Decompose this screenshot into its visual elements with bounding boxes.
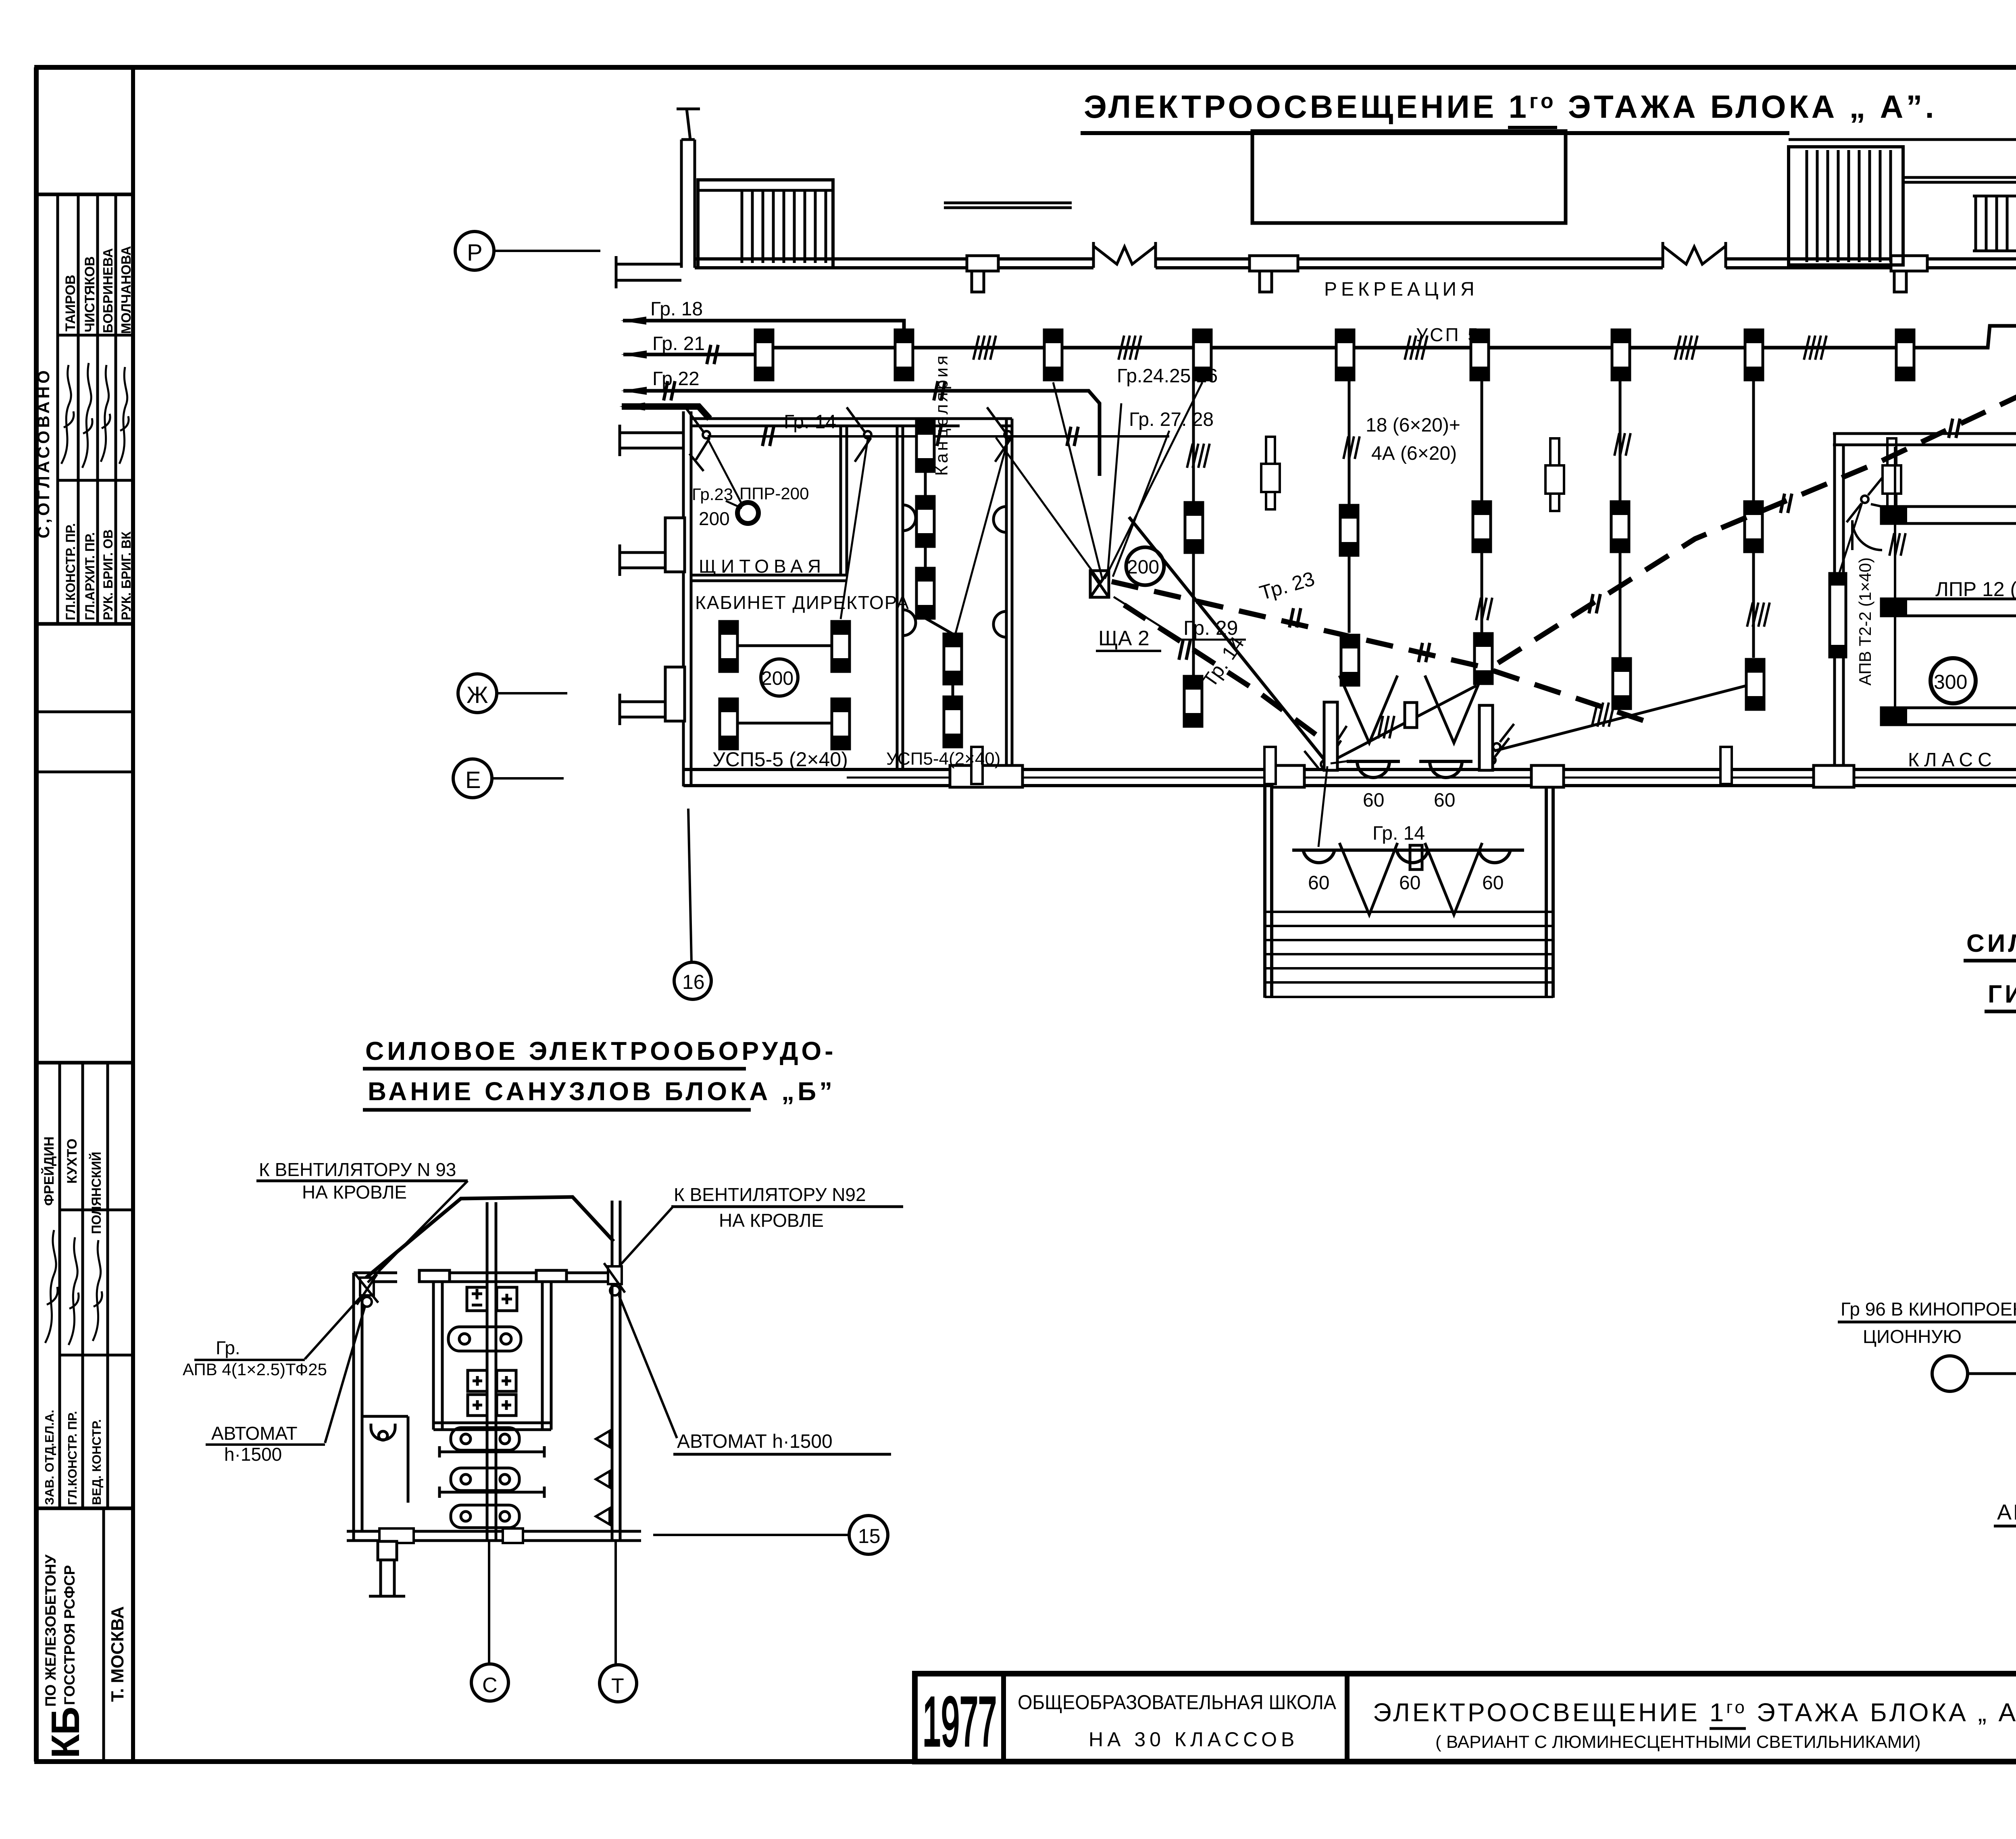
corridor north wall center: [1156, 257, 1663, 261]
office luminaire 4: [832, 699, 850, 749]
bath entry stub: [369, 1541, 405, 1596]
wall pier a: [950, 765, 1023, 787]
switch cluster right post: [1488, 724, 1514, 764]
main stairhall rectangle: [1252, 131, 1566, 223]
switch cluster left post: [1304, 726, 1347, 768]
svg-text:ЗАВ. ОТД.ЕЛ.А.: ЗАВ. ОТД.ЕЛ.А.: [42, 1410, 56, 1505]
svg-text:Гр 22: Гр 22: [652, 368, 700, 390]
leader 15: [653, 1534, 848, 1536]
wall luminaire АПО: [1830, 573, 1846, 657]
hall luminaire c4 up: [1611, 502, 1629, 552]
svg-text:Гр. 14: Гр. 14: [784, 411, 836, 433]
luminaire row1-2: [895, 330, 913, 380]
wall stub 4: [620, 694, 669, 725]
kanc luminaire 2: [916, 496, 934, 546]
leader Автомат right: [619, 1295, 677, 1438]
dashed branch lower: [1124, 605, 1325, 741]
dashed trunk Тр.23: [1112, 582, 1645, 721]
wire vestibule right: [1494, 686, 1747, 751]
svg-text:РУК. БРИГ. ВК: РУК. БРИГ. ВК: [119, 531, 133, 620]
svg-text:С: С: [482, 1674, 498, 1697]
wire Гр.21: [623, 353, 755, 357]
svg-text:ЩА 2: ЩА 2: [1098, 627, 1150, 650]
svg-text:НА КРОВЛЕ: НА КРОВЛЕ: [719, 1210, 824, 1231]
lamp rail lower: [1292, 849, 1524, 852]
svg-text:ЛПР 12 (2×40): ЛПР 12 (2×40): [1935, 578, 2016, 600]
sheet border bottom: [34, 1759, 2016, 1764]
underline vent92: [671, 1205, 903, 1208]
title underline: [1081, 131, 1789, 135]
stall post left: [419, 1270, 450, 1430]
hatch groups on bus: [973, 336, 996, 360]
left entry grid stub: [687, 109, 690, 140]
hall luminaire c5 low: [1746, 659, 1764, 709]
signature 3: [101, 365, 110, 462]
svg-text:4А (6×20): 4А (6×20): [1371, 443, 1457, 464]
tb divider 1: [1001, 1674, 1006, 1762]
signature 7: [93, 1240, 102, 1341]
stairwell right box: [1789, 147, 1903, 265]
column below wall 3: [1894, 271, 1906, 292]
kanc luminaire 1: [916, 421, 934, 471]
sheet border left: [34, 67, 39, 1762]
grid circle Ж: [458, 674, 567, 713]
svg-text:60: 60: [1308, 872, 1329, 894]
top edge line right: [1789, 138, 2016, 141]
kanc luminaire 3: [916, 568, 934, 618]
svg-text:Гр. 14: Гр. 14: [1372, 823, 1425, 844]
column stub 3: [1720, 747, 1732, 784]
sidebar right edge: [131, 67, 135, 1762]
svg-text:ГЛ.КОНСТР. ПР.: ГЛ.КОНСТР. ПР.: [63, 523, 78, 620]
bath bottom wall: [347, 1530, 641, 1533]
circle С: [471, 1664, 508, 1701]
svg-text:60: 60: [1482, 872, 1504, 894]
title block frame: [915, 1674, 2016, 1762]
luminaire row1-9: [1896, 330, 1914, 380]
right railing bars: [1976, 196, 2016, 250]
room block left wall: [682, 411, 685, 786]
underline Автомат right: [673, 1453, 891, 1456]
vestibule left wall: [1263, 786, 1266, 998]
tb divider 2: [1345, 1674, 1350, 1762]
door M left entrance: [1093, 242, 1156, 268]
svg-text:ГЛ.АРХИТ. ПР.: ГЛ.АРХИТ. ПР.: [83, 532, 97, 620]
urinal 3: [596, 1508, 610, 1524]
leader ГрАПВ: [305, 1295, 362, 1359]
svg-text:РЕКРЕАЦИЯ: РЕКРЕАЦИЯ: [1324, 279, 1479, 300]
svg-text:Ж: Ж: [467, 682, 488, 708]
hall luminaire c4 low: [1613, 659, 1631, 709]
underline Автомат гым: [1994, 1525, 2016, 1528]
wire Гр.14 run: [708, 435, 1169, 438]
grid circle Р: [455, 231, 600, 270]
room block top wall: [691, 417, 1012, 420]
class bar luminaire 3: [1881, 708, 2016, 725]
bath header underline2: [363, 1108, 751, 1112]
wall pier white: [967, 256, 998, 271]
tbar 1: [439, 1446, 544, 1457]
svg-text:200: 200: [761, 668, 793, 689]
bath fan left: [355, 1274, 378, 1307]
svg-text:КЛАСС: КЛАСС: [1908, 749, 1997, 771]
corridor north wall left: [695, 257, 1093, 261]
svg-text:Тр. 23: Тр. 23: [1257, 567, 1317, 604]
svg-text:ОБЩЕОБРАЗОВАТЕЛЬНАЯ ШКОЛА: ОБЩЕОБРАЗОВАТЕЛЬНАЯ ШКОЛА: [1018, 1691, 1337, 1714]
tbar 2: [439, 1487, 544, 1498]
kino circle: [1932, 1356, 1968, 1391]
class wire vertical: [1894, 447, 1896, 709]
hall luminaire c5 up: [1745, 502, 1762, 552]
svg-text:АВТОМАТ h·1500: АВТОМАТ h·1500: [677, 1431, 833, 1452]
south wall line 2: [683, 784, 2016, 787]
wall stub 2: [620, 425, 683, 456]
schitovaya right wall: [839, 426, 842, 575]
door post center inner: [1410, 845, 1422, 869]
door M center: [1663, 242, 1726, 268]
office luminaire 3: [720, 699, 737, 749]
wall pier c: [1531, 765, 1564, 787]
luminaire row1-7: [1612, 330, 1630, 380]
chain col2: [1348, 380, 1351, 633]
svg-text:К ВЕНТИЛЯТОРУ N92: К ВЕНТИЛЯТОРУ N92: [674, 1184, 866, 1205]
wall pier white 2: [1250, 256, 1298, 271]
svg-text:ГОССТРОЯ РСФСР: ГОССТРОЯ РСФСР: [61, 1565, 78, 1705]
svg-text:h·1500: h·1500: [224, 1444, 282, 1465]
luminaire row1-4: [1193, 330, 1211, 380]
line to С: [488, 1541, 490, 1664]
tick Гр.21: [707, 345, 718, 364]
wire Гр.22: [623, 391, 1100, 476]
toilet row3: [451, 1505, 519, 1528]
ref line 16: [688, 809, 691, 962]
svg-text:НА КРОВЛЕ: НА КРОВЛЕ: [302, 1182, 407, 1203]
chain col4: [1619, 380, 1622, 658]
svg-text:СИЛОВОЕ ЭЛЕКТРООБОРУДО-: СИЛОВОЕ ЭЛЕКТРООБОРУДО-: [365, 1036, 837, 1065]
svg-text:200: 200: [1127, 557, 1159, 578]
wire to ppr outlet: [708, 440, 742, 504]
svg-text:Гр. 21: Гр. 21: [652, 333, 705, 354]
signature 1: [61, 365, 74, 464]
underline vent93: [256, 1180, 468, 1182]
wall stub 1: [616, 256, 681, 288]
class bar luminaire 2: [1881, 599, 2016, 616]
circle Т: [600, 1665, 637, 1702]
svg-text:300: 300: [1934, 671, 1967, 693]
wire vestibule left: [1327, 686, 1477, 763]
luminaire row1-8: [1745, 330, 1763, 380]
underline Автомат left: [206, 1443, 325, 1446]
office row link 2: [737, 722, 832, 725]
wire to kino circle: [1968, 1372, 2016, 1375]
underline кино: [1838, 1321, 2016, 1324]
svg-text:ВАНИЕ САНУЗЛОВ БЛОКА „Б”: ВАНИЕ САНУЗЛОВ БЛОКА „Б”: [368, 1077, 835, 1106]
feeder heavy: [622, 407, 710, 419]
column stub 1: [971, 747, 983, 784]
svg-text:15: 15: [858, 1525, 881, 1547]
wall pier b: [1272, 765, 1304, 787]
bath header underline1: [363, 1067, 746, 1071]
gym underline2: [1985, 1010, 2016, 1013]
lamp 60 u1: [1347, 761, 1400, 778]
svg-text:АПВ Т2-2 (1×40): АПВ Т2-2 (1×40): [1856, 557, 1874, 686]
luminaire row1-5: [1336, 330, 1354, 380]
door M inner: [1339, 843, 1482, 915]
svg-text:ППР-200: ППР-200: [739, 484, 809, 503]
staff table grid: [58, 1063, 61, 1508]
right landing rail: [1903, 176, 2016, 179]
svg-text:БОБРИНЕВА: БОБРИНЕВА: [100, 248, 115, 333]
svg-text:ГЛ.КОНСТР. ПР.: ГЛ.КОНСТР. ПР.: [65, 1411, 79, 1505]
svg-text:Е: Е: [465, 767, 481, 793]
urinal 2: [596, 1471, 610, 1487]
svg-text:Гр 96 В КИНОПРОЕК-: Гр 96 В КИНОПРОЕК-: [1841, 1299, 2016, 1320]
sink block mid: [468, 1370, 516, 1416]
svg-text:Т: Т: [611, 1674, 624, 1698]
wire to lamps: [1318, 761, 1352, 847]
svg-text:ЧИСТЯКОВ: ЧИСТЯКОВ: [82, 256, 98, 332]
leader Гр.24 labels: [1108, 403, 1169, 577]
sink pair top: [467, 1287, 517, 1311]
office row link 1: [737, 644, 832, 647]
svg-text:УСП5-5 (2×40): УСП5-5 (2×40): [712, 748, 848, 771]
column stub 2: [1264, 747, 1276, 784]
svg-text:К ВЕНТИЛЯТОРУ N 93: К ВЕНТИЛЯТОРУ N 93: [259, 1159, 456, 1180]
signature 6: [69, 1237, 79, 1345]
svg-text:КУХТО: КУХТО: [65, 1138, 80, 1184]
svg-text:( ВАРИАНТ С ЛЮМИНЕСЦЕНТНЫМИ С: ( ВАРИАНТ С ЛЮМИНЕСЦЕНТНЫМИ СВЕТИЛЬНИКАМ…: [1435, 1732, 1921, 1752]
chain col3: [1481, 380, 1483, 634]
switch 1: [685, 407, 710, 471]
svg-text:НА 30 КЛАССОВ: НА 30 КЛАССОВ: [1089, 1728, 1298, 1751]
wire to kanc fixture: [956, 440, 1008, 633]
svg-text:КБ: КБ: [43, 1708, 87, 1758]
stall shelf: [433, 1423, 551, 1430]
leader Автомат left: [325, 1307, 365, 1443]
wall stub 3: [620, 544, 669, 576]
lamp 60 l1: [1303, 850, 1335, 863]
underline ГрАПВ: [194, 1359, 305, 1361]
leader Гр.29: [1114, 597, 1246, 640]
luminaire row1-6: [1471, 330, 1489, 380]
door post center top: [1405, 703, 1417, 728]
underline ЩА2: [1096, 650, 1161, 652]
svg-text:Гр. 18: Гр. 18: [650, 298, 703, 320]
svg-text:ЩИТОВАЯ: ЩИТОВАЯ: [699, 556, 826, 577]
lamp 60 l2: [1397, 850, 1428, 863]
svg-text:Гр.: Гр.: [216, 1337, 240, 1358]
toilet row2: [451, 1468, 519, 1491]
wire switch to APO: [1839, 503, 1862, 573]
svg-text:АВТОМАТ: АВТОМАТ: [211, 1423, 298, 1444]
stairs left treads: [742, 190, 826, 263]
corridor north wall right: [1726, 257, 2016, 261]
svg-text:ЭЛЕКТРООСВЕЩЕНИЕ 1го ЭТАЖА БЛ: ЭЛЕКТРООСВЕЩЕНИЕ 1го ЭТАЖА БЛОКА „ А”: [1373, 1697, 2016, 1727]
chain col5: [1752, 380, 1755, 658]
column B: [1545, 438, 1564, 511]
solid line Тр.14: [1129, 517, 1327, 763]
bath central wall: [486, 1202, 489, 1541]
south wall mid line: [847, 777, 2016, 779]
kanc chain: [925, 471, 953, 697]
bath pier 2: [503, 1528, 523, 1543]
wire to office fixture: [841, 440, 868, 619]
column below wall: [972, 271, 984, 292]
svg-text:УСП5-4(2×40): УСП5-4(2×40): [886, 749, 1000, 769]
hall luminaire c2 low: [1341, 635, 1359, 685]
pilaster 4: [665, 667, 685, 721]
chain col1: [1192, 380, 1195, 676]
svg-text:ВЕД. КОНСТР.: ВЕД. КОНСТР.: [90, 1419, 104, 1505]
hatch marks on chains: [1343, 436, 1360, 459]
svg-text:С,ОГЛАСОВАНО: С,ОГЛАСОВАНО: [34, 367, 53, 538]
hall luminaire c1 up: [1185, 502, 1203, 553]
svg-text:1977: 1977: [923, 1683, 997, 1760]
hall luminaire c2 up: [1340, 505, 1358, 555]
ticks on dashed: [1289, 608, 1301, 628]
svg-text:18 (6×20)+: 18 (6×20)+: [1366, 415, 1460, 436]
wall pier d: [1814, 765, 1854, 787]
signature 2: [82, 363, 92, 468]
svg-text:ГИМНАСТИЧЕСКОГО ЗАЛА: ГИМНАСТИЧЕСКОГО ЗАЛА: [1988, 980, 2016, 1008]
circle 15: [849, 1516, 888, 1554]
toilet top pair: [448, 1327, 521, 1351]
line to Т: [614, 1541, 617, 1665]
column C: [1883, 438, 1901, 511]
class bar luminaire 1: [1881, 507, 2016, 523]
gym underline1: [1964, 959, 2016, 963]
vestibule right wall: [1545, 786, 1548, 998]
bath left wall: [352, 1273, 355, 1541]
stairs right treads: [1807, 150, 1891, 262]
leader ppr: [726, 501, 742, 508]
switch 3: [987, 407, 1012, 462]
class door arc: [1852, 520, 1882, 550]
canopy line: [944, 203, 1072, 208]
lamp 60 u2: [1419, 761, 1472, 778]
column below wall 2: [1260, 271, 1272, 292]
stairwell left box: [698, 180, 833, 268]
door jamb post right: [1479, 705, 1493, 770]
urinal 1: [596, 1431, 610, 1447]
bath fan right: [604, 1263, 625, 1295]
bath top wall: [354, 1273, 620, 1282]
door M outer: [1339, 676, 1482, 743]
left entry wall: [680, 140, 683, 268]
svg-text:60: 60: [1399, 872, 1420, 894]
hall luminaire c1 low: [1184, 676, 1202, 726]
wires from panel: [996, 382, 1202, 583]
hall luminaire c3 low: [1475, 634, 1492, 684]
toilet row1: [451, 1428, 519, 1450]
svg-text:ЭЛЕКТРООСВЕЩЕНИЕ 1го ЭТАЖА: ЭЛЕКТРООСВЕЩЕНИЕ 1го ЭТАЖА БЛОКА „ А”.: [1084, 89, 1937, 125]
office 200 circle: [761, 659, 798, 696]
approval table grid: [56, 194, 59, 624]
bath right wall: [611, 1201, 614, 1541]
kanc 200 circle: [1126, 547, 1164, 585]
svg-text:УСП 5: УСП 5: [1416, 324, 1480, 345]
svg-text:60: 60: [1363, 790, 1384, 811]
grid circle Е: [453, 759, 564, 798]
tick Гр.22: [664, 381, 675, 400]
leader N93: [368, 1181, 468, 1282]
ref circle 16: [674, 962, 711, 999]
door arc kanc right: [993, 507, 1006, 637]
svg-text:ПОЛЯНСКИЙ: ПОЛЯНСКИЙ: [89, 1152, 104, 1234]
sidebar dividers: [36, 193, 133, 196]
sheet border top: [34, 65, 2016, 70]
schitovaya bottom wall: [691, 574, 847, 577]
svg-text:РУК. БРИГ. ОВ: РУК. БРИГ. ОВ: [101, 530, 115, 620]
leader N92: [621, 1206, 674, 1264]
steps: [1265, 912, 1553, 997]
kanc right wall: [1005, 419, 1008, 770]
lamp 60 l3: [1479, 850, 1510, 863]
svg-text:АПВ 4(1×2.5)ТФ25: АПВ 4(1×2.5)ТФ25: [183, 1360, 327, 1379]
column A: [1261, 437, 1280, 509]
class top wall: [1833, 432, 2016, 435]
partition office-kanc: [896, 426, 899, 770]
signature 5: [45, 1230, 58, 1343]
door jamb post left: [1324, 702, 1337, 770]
door arc kanc left: [903, 505, 916, 636]
pilaster 3: [665, 518, 685, 572]
svg-text:Р: Р: [467, 240, 483, 266]
class left wall: [1833, 434, 1836, 769]
south wall line 1: [683, 768, 2016, 771]
svg-text:КАБИНЕТ ДИРЕКТОРА: КАБИНЕТ ДИРЕКТОРА: [695, 592, 910, 613]
svg-text:ТАИРОВ: ТАИРОВ: [63, 275, 78, 332]
roof wire: [366, 1197, 614, 1278]
closet walls: [362, 1416, 408, 1503]
svg-text:60: 60: [1434, 790, 1455, 811]
panel ЩА2: [1090, 571, 1109, 597]
wire Гр.18: [623, 321, 904, 330]
luminaire row1-3: [1044, 330, 1062, 380]
bath pier 1: [379, 1528, 414, 1543]
svg-text:СИЛОВОЕ ЭЛЕКТРООБОРУДОВАНИЕ: СИЛОВОЕ ЭЛЕКТРООБОРУДОВАНИЕ: [1966, 930, 2016, 957]
dashed trunk to A: [1497, 393, 2016, 664]
office luminaire 1: [720, 621, 737, 671]
logo box divider: [102, 1508, 105, 1762]
kanc luminaire 5: [944, 697, 962, 747]
hall luminaire c3 up: [1473, 502, 1491, 552]
svg-text:ФРЕЙДИН: ФРЕЙДИН: [41, 1136, 57, 1206]
svg-text:АВТОМАТ h‑1500: АВТОМАТ h‑1500: [1997, 1500, 2016, 1524]
kanc luminaire 4: [944, 634, 962, 684]
svg-text:Т. МОСКВА: Т. МОСКВА: [108, 1606, 127, 1702]
stall post right: [536, 1270, 566, 1430]
svg-text:ЦИОННУЮ: ЦИОННУЮ: [1863, 1326, 1962, 1347]
svg-text:ПО ЖЕЛЕЗОБЕТОНУ: ПО ЖЕЛЕЗОБЕТОНУ: [42, 1554, 59, 1707]
wall pier white 3: [1891, 256, 1927, 271]
switch 2: [847, 407, 871, 462]
luminaire row1-1: [755, 330, 773, 380]
svg-text:200: 200: [699, 508, 730, 529]
ppr outlet circle: [737, 502, 758, 523]
office luminaire 2: [832, 621, 850, 671]
circle 300: [1931, 658, 1976, 703]
signature 4: [119, 367, 129, 464]
svg-text:Гр. 27. 28: Гр. 27. 28: [1129, 409, 1214, 430]
class switch cluster: [1847, 478, 1893, 522]
underline 1го tb: [1710, 1727, 1746, 1730]
svg-text:МОЛЧАНОВА: МОЛЧАНОВА: [119, 246, 133, 334]
svg-text:16: 16: [682, 971, 705, 993]
corridor lighting bus: [764, 326, 2016, 348]
